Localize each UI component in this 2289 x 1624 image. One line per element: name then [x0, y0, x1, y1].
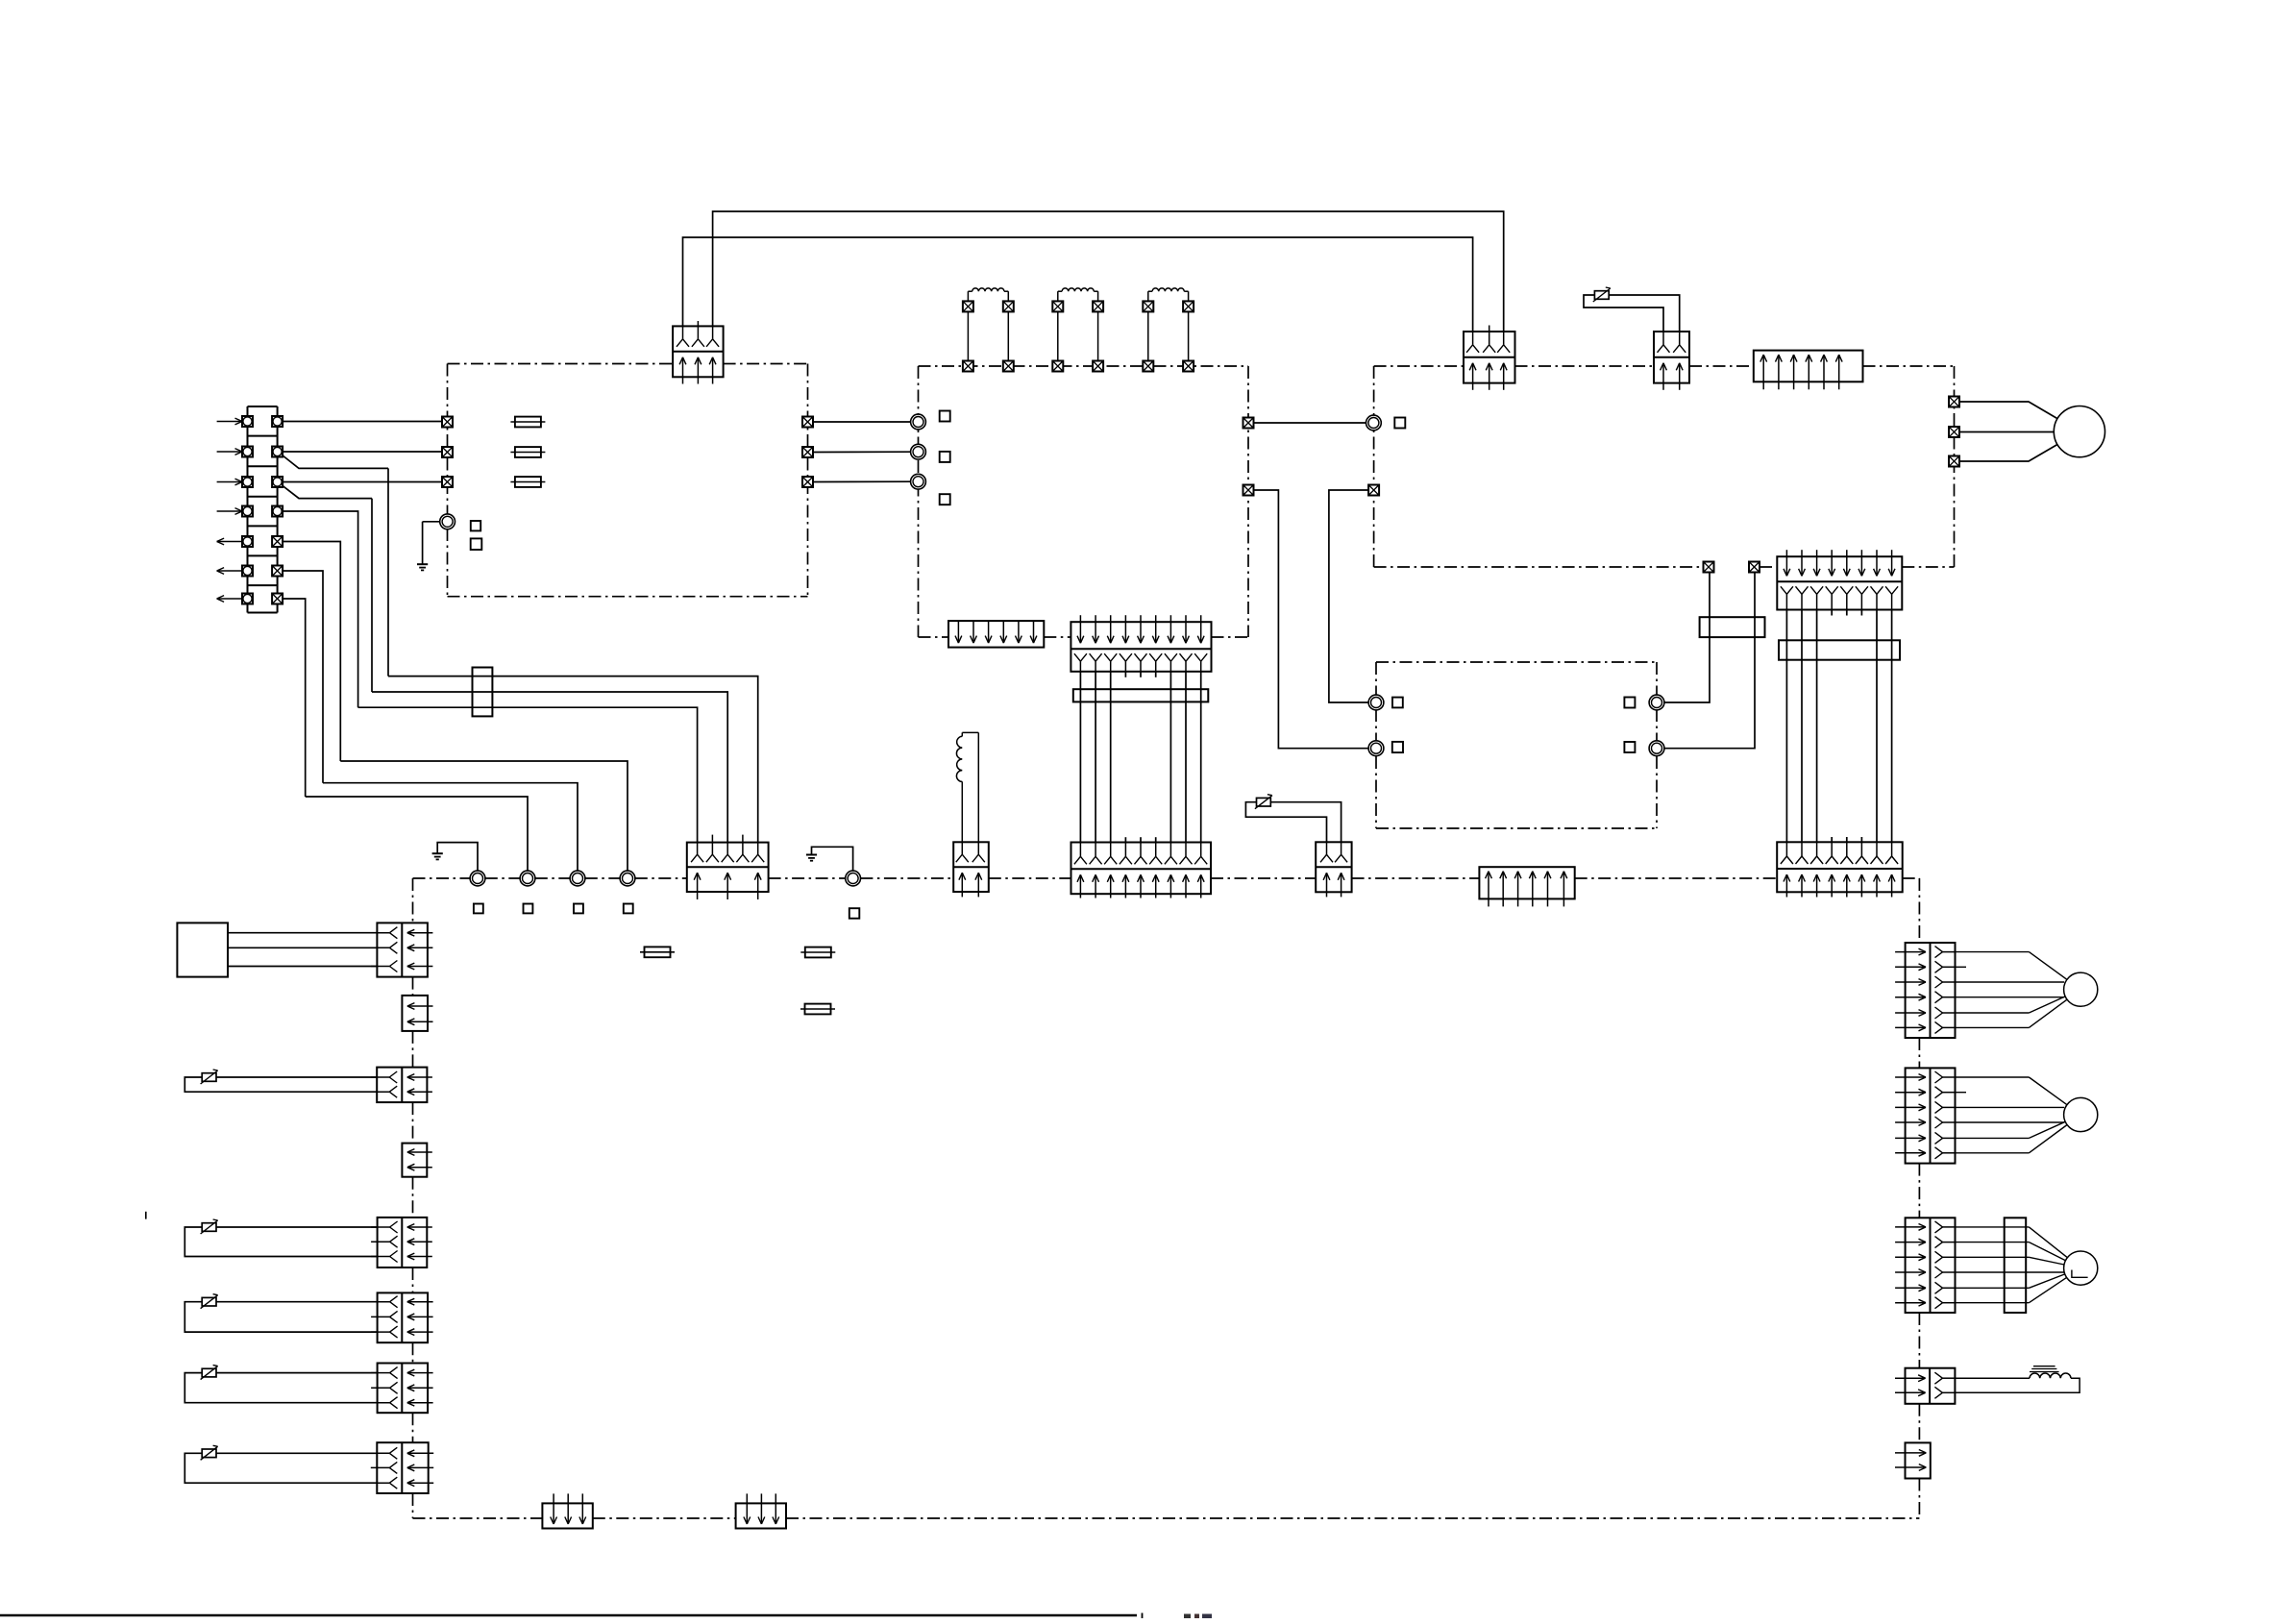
stub bundle A upper pin 6 — [1155, 672, 1157, 677]
connector CN-D1 (3p row, down) on bottom bus — [542, 1503, 592, 1528]
pad square S43 — [1624, 698, 1635, 708]
ground stub for BC1 — [437, 843, 478, 872]
line-filter coil LF3 — [1147, 311, 1149, 360]
wires CN-R1 to M-R1 — [1956, 1076, 2030, 1078]
right column bus corner top — [1918, 878, 1920, 943]
main bus segment f — [769, 877, 846, 879]
thermistor TH-L2 — [202, 1073, 216, 1082]
left column bus seg3 — [412, 1102, 414, 1144]
connector CN-R2 (6p) right column — [1906, 1218, 1956, 1313]
pad square S41 — [1392, 698, 1403, 708]
footer tick — [1142, 1613, 1144, 1619]
thermistor TH-L5 — [202, 1297, 216, 1306]
coil LF2 upper X-boxes — [1052, 301, 1063, 311]
left column bus seg7 — [412, 1413, 414, 1442]
connector CN101 left pin 2 — [242, 447, 253, 457]
louver mark inside M-R2 — [2072, 1270, 2088, 1278]
connector CN101 left pin 1 — [242, 416, 253, 427]
stub bundle A lower pin 4 — [1124, 837, 1126, 842]
connector CN-L5 (3p) — [378, 1292, 429, 1342]
ground symbol G2 — [432, 852, 443, 854]
wire row2 tap vertical — [387, 468, 389, 676]
wire bundle A conductor 9 — [1200, 672, 1202, 843]
stub bundle B upper pin 6 — [1860, 610, 1862, 616]
bus splice circle BC5 — [846, 871, 861, 886]
coil LF2 lower X-boxes on B2 edge — [1052, 361, 1063, 372]
wires CN-R2 to M-R2 — [1956, 1226, 2030, 1228]
connector CN-L0 (3p) left column — [377, 923, 428, 976]
PCB box B4 (relay) outline — [1376, 661, 1657, 663]
heater hatch marks — [2031, 1368, 2056, 1370]
pad square under BC3 — [574, 904, 583, 914]
connector CN101 left pin 5 — [242, 536, 253, 547]
wire bundle h3 (y736) to CN-M1 pin1 — [358, 707, 698, 842]
wire row3 tap vertical — [371, 499, 373, 692]
bus splice circle BC3 — [570, 871, 585, 886]
bus splice circle BC1 — [470, 871, 485, 886]
pad square S31 — [1394, 418, 1405, 429]
connector CN-B1 top (8p pair, down) on B3 bottom edge — [1777, 556, 1902, 609]
wire TH-M right to CN-M3 pin2 — [1270, 802, 1341, 843]
PCB box B1 right edge — [807, 364, 809, 597]
terminal X103 on B1 left edge — [442, 477, 453, 487]
sensor unit box U-L0 — [177, 923, 228, 976]
PCB box B3 right edge — [1954, 366, 1956, 567]
wire TH-L7 loop — [185, 1453, 377, 1483]
right column bus seg4 — [1918, 1404, 1920, 1443]
main bus segment a — [413, 877, 471, 879]
right column bus seg3 — [1918, 1313, 1920, 1368]
stub bundle B lower pin 6 — [1860, 837, 1862, 842]
wire X22 to relay circle RC2 — [1254, 490, 1369, 749]
wire row2 tap diagonal — [283, 455, 388, 468]
stub bundle B lower pin 4 — [1831, 837, 1833, 842]
connector CN101 ladder frame — [248, 406, 278, 407]
connector CN-M1 (5p pair) on main bus — [687, 843, 769, 892]
relay circle RC4 on B4 right edge — [1649, 741, 1664, 756]
connector CN-M3 (2p pair) on main bus — [1316, 842, 1351, 892]
connector CN-R1 (6p) right column — [1906, 1068, 1956, 1163]
relay circle RC1 on B4 left edge — [1368, 695, 1384, 710]
left column bus corner — [412, 878, 414, 923]
wire row5 — [283, 542, 340, 762]
terminal X101 on B1 left edge — [442, 417, 453, 428]
pad square S11 — [471, 521, 480, 530]
connector CN-T4 (6p row, up arrows) on B3 top edge — [1754, 351, 1863, 382]
coil LF1 upper X-boxes — [963, 301, 973, 311]
stub bundle B upper pin 5 — [1846, 610, 1848, 616]
output arrow row 6 — [217, 570, 242, 572]
connector CN101 right pin 7 (crossed) — [272, 594, 283, 604]
pad square S23 — [940, 494, 950, 504]
pad square S22 — [940, 452, 950, 462]
wire bundle h2 (y720) to CN-M1 pin3 — [372, 692, 727, 843]
connector CN-M4 (6p row, up) on main bus — [1479, 867, 1574, 898]
connector CN-R0 (6p) right column — [1906, 943, 1956, 1038]
connector CN-T1 (3p) on B1 top edge — [673, 326, 724, 377]
cable tie T-A — [1073, 689, 1209, 701]
wire bundle h4 (y792) to bus circle 4 — [340, 761, 628, 871]
wire X333 to compressor — [1959, 445, 2057, 462]
main bus segment k — [1575, 877, 1778, 879]
ground stub for BC5 — [812, 847, 853, 871]
wire X331 to compressor — [1959, 402, 2057, 419]
terminal X21 on B2 right edge — [1243, 418, 1254, 429]
wire X111 to B2 circle1 — [813, 421, 911, 423]
relay circle RC3 on B4 right edge — [1649, 695, 1664, 710]
terminal X112 on B1 right edge — [802, 447, 813, 457]
right column bus to bottom corner — [1918, 1479, 1920, 1519]
connector CN-R4 (2p) right column — [1906, 1442, 1931, 1478]
terminal X22 on B2 right edge — [1243, 485, 1254, 496]
wire row1 to X101 — [283, 421, 442, 423]
connector CN101 left pin 7 — [242, 594, 253, 604]
main bus segment b — [485, 877, 520, 879]
fuse F-M3 — [800, 1008, 835, 1010]
bottom bus segment c — [786, 1517, 1919, 1519]
wire TH-L4 loop — [185, 1227, 377, 1257]
wire X332 to compressor — [1959, 431, 2054, 433]
line-filter coil LF2 — [1057, 311, 1059, 360]
pad square S12 — [471, 538, 482, 550]
stub bundle A upper pin 5 — [1140, 672, 1142, 677]
relay circle RC2 on B4 left edge — [1368, 741, 1384, 756]
input arrow row 4 — [217, 510, 242, 512]
left column bus seg1 — [412, 977, 414, 996]
wire bundle A conductor 1 — [1079, 672, 1081, 843]
main bus segment j — [1352, 877, 1480, 879]
terminal X111 on B1 right edge — [802, 417, 813, 428]
pad square under BC5 — [849, 908, 860, 919]
connector CN-L4 (3p) — [378, 1218, 428, 1267]
wire TH-L5 loop — [185, 1302, 377, 1332]
wires CN-R0 to M-R0 — [1956, 951, 2030, 953]
connector CN-R3 (2p) right column — [1906, 1368, 1956, 1404]
wire bundle B conductor 7 — [1876, 610, 1878, 843]
PCB box B2 top edge — [919, 365, 1249, 367]
PCB box B2 left edge — [918, 366, 920, 637]
main bus segment c — [535, 877, 570, 879]
wire X31 to relay circle RC1 — [1329, 490, 1368, 702]
fuse F101 — [510, 421, 545, 423]
thermistor TH-L6 — [202, 1368, 216, 1377]
wire row2 to X102 — [283, 451, 442, 453]
coil LF3 lower X-boxes on B2 edge — [1143, 361, 1153, 372]
fuse F103 — [510, 481, 545, 483]
connector CN101 left pin 3 — [242, 477, 253, 487]
wire bundle h5 (y815) to bus circle 3 — [323, 783, 578, 872]
stub bundle B lower pin 5 — [1846, 837, 1848, 842]
wire bundle B conductor 2 — [1801, 610, 1803, 843]
main bus segment l — [1903, 877, 1920, 879]
PCB box B3 left edge — [1373, 366, 1375, 567]
wire X21 to B3 circle C31 — [1254, 422, 1366, 424]
main bus segment h — [989, 877, 1071, 879]
left column bus seg2 — [412, 1031, 414, 1068]
connector CN-L2 (2p) — [377, 1068, 427, 1103]
page footer rule — [0, 1614, 1137, 1617]
terminal X35 on B3 bottom edge — [1749, 562, 1760, 573]
connector CN101 right pin 4 — [272, 506, 283, 517]
cable tie T-R2 — [2005, 1218, 2027, 1313]
wire RC4 to X35 — [1664, 573, 1755, 749]
wire row3 to X103 — [283, 481, 442, 483]
wire bundle A conductor 7 — [1169, 672, 1171, 843]
wire bundle B conductor 8 — [1891, 610, 1893, 843]
connector CN-T3 (2p) on B3 top edge — [1654, 332, 1689, 383]
left column bus seg5 — [412, 1267, 414, 1292]
stub bundle A lower pin 6 — [1155, 837, 1157, 842]
wire row6 — [283, 571, 323, 783]
main bus segment i — [1211, 877, 1317, 879]
terminal circle C31 on B3 left edge — [1366, 415, 1382, 431]
coil LF1 lower X-boxes on B2 edge — [963, 361, 973, 372]
cable tie T101 — [473, 668, 493, 717]
connector CN-L1 (2p) — [402, 996, 428, 1031]
cable tie T-B4 — [1700, 617, 1765, 637]
wire bundle h1 (y704) to CN-M1 pin5 — [388, 677, 758, 843]
PCB box B1 left edge — [447, 364, 449, 597]
pad square S42 — [1392, 742, 1403, 752]
connector CN-T2 (3p) on B3 top edge — [1464, 332, 1515, 383]
connector CN101 right pin 1 — [272, 416, 283, 427]
bottom bus segment a — [413, 1517, 543, 1519]
terminal circle C22 on B2 left edge — [911, 444, 926, 459]
connector CN101 right pin 5 (crossed) — [272, 536, 283, 547]
output arrow row 5 — [217, 541, 242, 543]
main bus segment e — [635, 877, 687, 879]
main bus segment g — [860, 877, 953, 879]
page tick mark — [145, 1212, 147, 1219]
connector CN-D2 (3p row, down) on bottom bus — [736, 1503, 786, 1528]
heater element wire — [1955, 1377, 2030, 1379]
PCB box B3 top edge — [1374, 365, 1464, 367]
left column bus to bottom corner — [412, 1493, 414, 1518]
wire bundle B conductor 1 — [1785, 610, 1787, 843]
PCB box B1 bottom edge — [448, 596, 808, 598]
connector CN-A1 (6p row, down arrows) on B2 bottom edge — [948, 621, 1044, 648]
footer tiny text marks — [1184, 1614, 1191, 1619]
wire CN-T1 pin1 to CN-T2 (run y247) — [683, 237, 1473, 332]
main bus segment d — [585, 877, 620, 879]
PCB box B3 bottom edge — [1374, 566, 1704, 568]
ground wire from TP1 — [423, 521, 440, 523]
wire row4 — [283, 511, 358, 707]
PCB box B2 right edge — [1247, 366, 1249, 637]
connector CN-L6 (3p) — [378, 1364, 429, 1414]
ground symbol G1 — [417, 563, 428, 565]
fan motor M-R2 (circle) — [2064, 1251, 2098, 1285]
fan motor M-R0 (circle) — [2064, 972, 2098, 1006]
degauss coil loop — [961, 781, 963, 842]
pad square S44 — [1624, 742, 1635, 752]
terminal X34 on B3 bottom edge — [1704, 562, 1714, 573]
wire bundle A conductor 3 — [1110, 672, 1112, 843]
stub bundle B upper pin 4 — [1831, 610, 1833, 616]
connector CN-A2 bottom (9p pair, up) on main bus — [1071, 843, 1212, 895]
terminal X102 on B1 left edge — [442, 447, 453, 457]
thermistor TH-M — [1257, 798, 1271, 806]
thermistor TH-L4 — [202, 1223, 216, 1232]
connector CN-B1 bottom (8p pair, up) on main bus — [1777, 842, 1903, 892]
wire bundle A conductor 2 — [1095, 672, 1096, 843]
pad square S21 — [940, 411, 950, 422]
wire RC3 to X34 — [1664, 573, 1710, 703]
wire TH-T right to CN-T3 pin2 — [1609, 295, 1680, 332]
terminal X113 on B1 right edge — [802, 477, 813, 487]
PCB box B1 top edge — [448, 363, 674, 365]
fan motor M-R1 (circle) — [2064, 1097, 2098, 1131]
PCB box B2 bottom edge — [919, 636, 949, 638]
wire TH-L2 loop — [185, 1077, 377, 1092]
wire TH-L6 loop — [185, 1373, 377, 1403]
wire bundle A conductor 8 — [1185, 672, 1187, 843]
thermistor TH-L7 — [202, 1449, 216, 1458]
pad square under BC2 — [524, 904, 533, 914]
input arrow row 1 — [217, 421, 242, 423]
input arrow row 2 — [217, 451, 242, 453]
fuse F102 — [510, 452, 545, 454]
fuse F-M1 — [640, 951, 675, 953]
connector CN101 left pin 4 — [242, 506, 253, 517]
connector CN-L7 (3p) — [377, 1442, 428, 1493]
line-filter coil LF1 — [967, 311, 969, 360]
thermistor TH-T — [1594, 291, 1609, 300]
fuse F-M2 — [800, 951, 835, 953]
connector CN101 right pin 2 — [272, 447, 283, 457]
coil LF3 upper X-boxes — [1143, 301, 1153, 311]
test point TP1 (double circle) on B1 left edge — [440, 514, 455, 529]
wire X112 to B2 circle2 — [813, 451, 911, 453]
wire bundle B conductor 3 — [1816, 610, 1818, 843]
left column bus seg4 — [412, 1177, 414, 1218]
connector CN101 left pin 6 — [242, 566, 253, 577]
terminal X332 on B3 right edge — [1949, 427, 1959, 437]
stub bundle A upper pin 4 — [1124, 672, 1126, 677]
wires U-L0 to CN-L0 — [228, 932, 377, 934]
right column bus seg1 — [1918, 1038, 1920, 1068]
cable tie T-B — [1779, 640, 1900, 659]
pad square under BC4 — [624, 904, 633, 914]
bus splice circle BC2 — [520, 871, 535, 886]
wire TH-M left to CN-M3 pin1 — [1245, 802, 1326, 843]
connector CN-L3 (2p) — [402, 1144, 427, 1177]
wire row3 tap diagonal — [283, 486, 372, 499]
terminal X331 on B3 right edge — [1949, 397, 1959, 407]
compressor motor M-C (circle) — [2054, 406, 2104, 457]
connector CN-A2 top (9p pair, down) on B2 bottom edge — [1071, 622, 1211, 672]
right column bus seg2 — [1918, 1164, 1920, 1218]
bus splice circle BC4 — [620, 871, 635, 886]
ground symbol G3 — [806, 854, 817, 856]
connector CN101 right pin 6 (crossed) — [272, 566, 283, 577]
stub bundle A lower pin 5 — [1140, 837, 1142, 842]
wire CN-T1 pin3 to CN-T2 (top run y220) — [713, 211, 1504, 332]
wire TH-T left to CN-T3 pin1 — [1584, 295, 1663, 332]
connector CN101 right pin 3 — [272, 477, 283, 487]
pad square under BC1 — [474, 904, 483, 914]
terminal X333 on B3 right edge — [1949, 456, 1959, 467]
bottom bus segment b — [593, 1517, 736, 1519]
wire row7 — [283, 599, 306, 797]
wire bundle h6 (y829) to bus circle 2 — [306, 797, 528, 871]
left column bus seg6 — [412, 1342, 414, 1363]
connector CN-M2 (2p pair) on main bus — [953, 842, 989, 892]
wire X113 to B2 circle3 — [813, 480, 911, 482]
terminal circle C23 on B2 left edge — [911, 474, 926, 489]
output arrow row 7 — [217, 598, 242, 600]
terminal circle C21 on B2 left edge — [911, 414, 926, 430]
terminal X31 on B3 left edge — [1368, 485, 1379, 496]
input arrow row 3 — [217, 481, 242, 483]
